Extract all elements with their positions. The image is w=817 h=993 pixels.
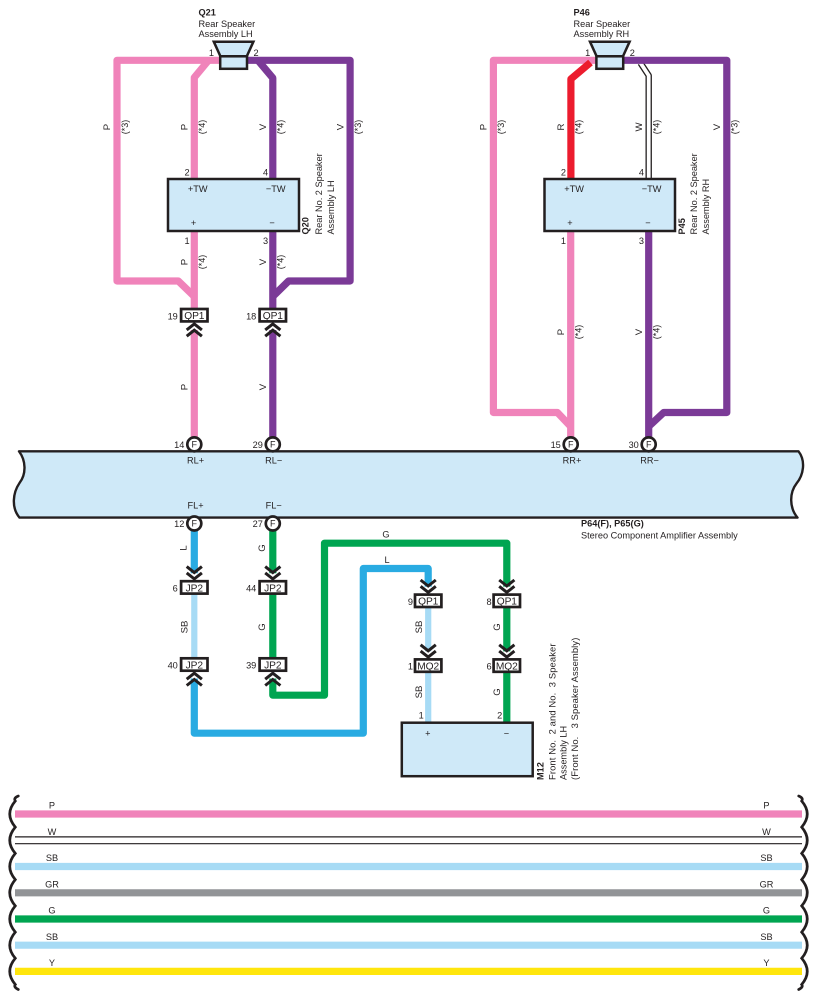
svg-text:P: P (102, 124, 113, 130)
svg-text:SB: SB (180, 621, 191, 634)
svg-text:RL+: RL+ (187, 455, 204, 465)
svg-text:3: 3 (639, 236, 644, 246)
svg-text:4: 4 (639, 167, 644, 177)
svg-text:8: 8 (486, 597, 491, 607)
svg-text:−TW: −TW (642, 184, 662, 194)
svg-text:G: G (763, 906, 770, 916)
svg-text:+: + (425, 729, 430, 739)
svg-text:GR: GR (45, 879, 59, 889)
svg-text:RR−: RR− (640, 455, 659, 465)
svg-text:19: 19 (168, 312, 178, 322)
svg-text:29: 29 (253, 440, 263, 450)
svg-text:40: 40 (168, 661, 178, 671)
svg-text:V: V (258, 258, 269, 265)
svg-text:6: 6 (173, 583, 178, 593)
svg-text:(*4): (*4) (197, 120, 207, 135)
svg-text:44: 44 (246, 583, 256, 593)
svg-text:RR+: RR+ (563, 455, 582, 465)
svg-text:V: V (712, 123, 723, 130)
svg-text:27: 27 (253, 519, 263, 529)
svg-text:1: 1 (184, 236, 189, 246)
svg-text:QP1: QP1 (263, 311, 284, 322)
svg-text:P: P (763, 801, 769, 811)
svg-text:1: 1 (561, 236, 566, 246)
svg-text:4: 4 (263, 167, 268, 177)
svg-text:Rear No. 2 Speaker: Rear No. 2 Speaker (314, 153, 324, 234)
svg-text:JP2: JP2 (186, 583, 204, 594)
svg-text:1: 1 (419, 711, 424, 721)
svg-text:F: F (568, 440, 574, 450)
svg-text:+TW: +TW (564, 184, 584, 194)
svg-text:6: 6 (486, 662, 491, 672)
svg-text:Rear No. 2 Speaker: Rear No. 2 Speaker (689, 153, 699, 234)
svg-text:15: 15 (551, 440, 561, 450)
svg-text:12: 12 (174, 519, 184, 529)
svg-text:V: V (258, 383, 269, 390)
svg-text:Assembly RH: Assembly RH (701, 179, 711, 235)
svg-text:P: P (49, 801, 55, 811)
svg-text:Assembly LH: Assembly LH (559, 726, 569, 780)
svg-text:L: L (384, 555, 389, 565)
svg-text:30: 30 (629, 440, 639, 450)
svg-text:W: W (48, 827, 57, 837)
svg-text:V: V (335, 123, 346, 130)
svg-text:(*3): (*3) (353, 120, 363, 135)
svg-text:MQ2: MQ2 (417, 662, 439, 673)
svg-text:39: 39 (246, 661, 256, 671)
svg-text:−TW: −TW (266, 184, 286, 194)
svg-text:1: 1 (408, 662, 413, 672)
svg-text:FL+: FL+ (188, 500, 204, 510)
svg-text:P64(F), P65(G): P64(F), P65(G) (581, 519, 644, 529)
svg-text:3: 3 (263, 236, 268, 246)
svg-text:R: R (556, 123, 567, 130)
svg-text:2: 2 (561, 167, 566, 177)
svg-text:2: 2 (184, 167, 189, 177)
svg-text:(*4): (*4) (652, 120, 662, 135)
svg-text:G: G (257, 544, 268, 551)
svg-text:M12: M12 (536, 762, 546, 780)
svg-text:SB: SB (46, 932, 58, 942)
svg-text:F: F (270, 440, 276, 450)
svg-text:G: G (48, 906, 55, 916)
svg-text:(*3): (*3) (496, 120, 506, 135)
svg-text:14: 14 (174, 440, 184, 450)
svg-text:Stereo Component Amplifier Ass: Stereo Component Amplifier Assembly (581, 531, 738, 541)
svg-text:(Front No. 3 Speaker Assembl: (Front No. 3 Speaker Assembly) (569, 638, 580, 780)
svg-text:+: + (567, 218, 572, 228)
svg-text:G: G (492, 623, 503, 630)
svg-text:Y: Y (763, 958, 769, 968)
svg-text:2: 2 (630, 48, 635, 58)
svg-text:P: P (180, 259, 191, 265)
svg-text:SB: SB (46, 853, 58, 863)
svg-text:GR: GR (760, 879, 774, 889)
svg-text:W: W (634, 122, 645, 132)
svg-text:1: 1 (209, 48, 214, 58)
svg-text:P: P (180, 124, 191, 130)
svg-text:F: F (192, 519, 198, 529)
svg-text:Assembly RH: Assembly RH (574, 29, 630, 39)
svg-text:−: − (504, 729, 509, 739)
svg-text:MQ2: MQ2 (496, 662, 518, 673)
svg-text:Q20: Q20 (301, 217, 311, 234)
svg-text:2: 2 (497, 711, 502, 721)
svg-text:F: F (270, 519, 276, 529)
svg-text:F: F (192, 440, 198, 450)
svg-text:L: L (179, 545, 190, 551)
svg-text:(*4): (*4) (652, 325, 662, 340)
svg-text:QP1: QP1 (184, 311, 205, 322)
svg-text:QP1: QP1 (418, 597, 439, 608)
svg-text:9: 9 (408, 597, 413, 607)
svg-text:JP2: JP2 (264, 660, 282, 671)
svg-text:(*4): (*4) (574, 120, 584, 135)
svg-text:Assembly LH: Assembly LH (199, 29, 253, 39)
svg-text:2: 2 (254, 48, 259, 58)
svg-text:SB: SB (414, 621, 425, 634)
svg-text:G: G (492, 688, 503, 695)
svg-text:(*4): (*4) (276, 120, 286, 135)
svg-text:Rear Speaker: Rear Speaker (574, 19, 631, 29)
svg-text:V: V (258, 123, 269, 130)
svg-text:FL−: FL− (266, 500, 282, 510)
svg-text:G: G (257, 623, 268, 630)
svg-text:P: P (556, 329, 567, 335)
svg-text:Y: Y (49, 958, 55, 968)
svg-text:Assembly LH: Assembly LH (326, 180, 336, 234)
svg-text:QP1: QP1 (497, 597, 518, 608)
svg-text:Rear Speaker: Rear Speaker (199, 19, 256, 29)
svg-text:JP2: JP2 (264, 583, 282, 594)
svg-text:Q21: Q21 (199, 8, 216, 18)
svg-text:P46: P46 (574, 8, 590, 18)
svg-text:RL−: RL− (265, 455, 282, 465)
svg-text:SB: SB (414, 686, 425, 699)
svg-text:P: P (479, 124, 490, 130)
svg-text:1: 1 (585, 48, 590, 58)
svg-text:(*4): (*4) (574, 325, 584, 340)
svg-text:+: + (191, 218, 196, 228)
svg-text:−: − (269, 218, 274, 228)
svg-text:(*3): (*3) (120, 120, 130, 135)
svg-text:Front No. 2 and No. 3 Speake: Front No. 2 and No. 3 Speaker (547, 643, 558, 780)
svg-text:P: P (180, 384, 191, 390)
svg-text:W: W (762, 827, 771, 837)
svg-text:(*4): (*4) (276, 255, 286, 270)
svg-text:JP2: JP2 (186, 660, 204, 671)
svg-text:−: − (645, 218, 650, 228)
svg-text:V: V (634, 328, 645, 335)
svg-text:(*4): (*4) (197, 255, 207, 270)
svg-text:SB: SB (760, 853, 772, 863)
svg-text:(*3): (*3) (730, 120, 740, 135)
svg-text:F: F (646, 440, 652, 450)
svg-text:P45: P45 (677, 218, 687, 234)
svg-text:+TW: +TW (188, 184, 208, 194)
svg-text:SB: SB (760, 932, 772, 942)
svg-text:G: G (382, 530, 389, 540)
svg-text:18: 18 (246, 312, 256, 322)
